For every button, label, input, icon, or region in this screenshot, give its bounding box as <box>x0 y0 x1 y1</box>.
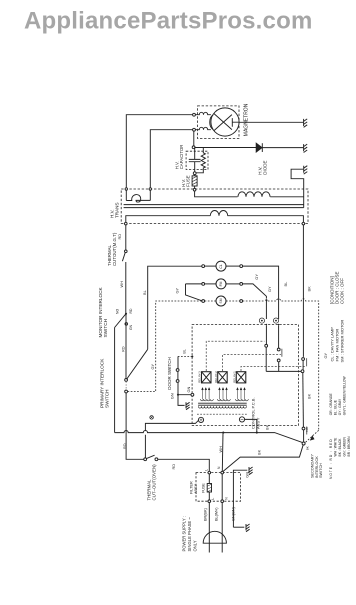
svg-text:BL(WH): BL(WH) <box>214 507 218 521</box>
svg-text:FUSE: FUSE <box>201 483 205 493</box>
svg-text:RELAY-1: RELAY-1 <box>232 371 236 383</box>
relay contact B lower <box>277 359 280 362</box>
wire primary lead right <box>228 216 304 223</box>
node stirrer junction pin <box>202 300 205 303</box>
relay contact A <box>265 344 268 347</box>
svg-text:L: L <box>204 469 208 471</box>
LVT lower boundary dashed <box>197 413 248 415</box>
svg-text:BL : BLUE: BL : BLUE <box>334 399 338 415</box>
svg-text:ONLY: ONLY <box>192 540 197 551</box>
ground chassis G5 <box>249 467 253 475</box>
wire fan out <box>226 283 240 285</box>
node door switch feed on box edge <box>191 355 193 357</box>
wire lamp out <box>226 265 240 267</box>
wire GN earth to plug side chassis <box>233 526 244 528</box>
svg-text:GN: GN <box>169 393 174 399</box>
monitor switch contact <box>125 323 128 326</box>
wire door switch drop <box>177 356 179 369</box>
svg-text:GN : GREEN: GN : GREEN <box>342 436 346 456</box>
capacitor C1 dashed enclosure <box>186 151 208 169</box>
svg-text:RD: RD <box>129 308 133 313</box>
fuse F2 H.V. FUSE <box>192 176 197 186</box>
ground chassis G4 <box>186 402 190 409</box>
wire stirrer feed <box>205 300 216 302</box>
node fan return joins rail <box>265 299 267 301</box>
node fan left pin <box>202 283 205 286</box>
motor SM stirrer motor <box>216 296 226 306</box>
thermal cutout (M.G.T) switch S1 <box>125 250 128 253</box>
filter assy dashed enclosure <box>196 473 241 502</box>
svg-text:GN(GN): GN(GN) <box>231 506 235 521</box>
svg-text:AppliancePartsPros.com: AppliancePartsPros.com <box>24 8 313 35</box>
secondary interlock switch S5 contact top <box>302 427 305 430</box>
wire fan feed drop from stirrer row <box>186 284 202 301</box>
svg-text:POWER SUPPLY :: POWER SUPPLY : <box>181 516 186 551</box>
node monitor branch junction <box>125 313 127 315</box>
wire magnetron filament lead 1 <box>126 115 192 201</box>
magnetron terminal pin 1 <box>193 113 196 116</box>
node filter terminal L <box>208 471 211 474</box>
wire door switch to GN terminal <box>178 383 191 395</box>
svg-text:COOK : OFF: COOK : OFF <box>340 278 345 304</box>
wire LVT left lead to thermal node <box>145 420 198 458</box>
node stirrer right pin <box>240 300 243 303</box>
magnetron anode bar <box>232 118 239 127</box>
svg-text:DOOR SWITCH: DOOR SWITCH <box>167 357 172 390</box>
svg-text:ASS'Y: ASS'Y <box>255 417 260 429</box>
relay link dashed RY3 <box>241 366 306 371</box>
wire GY stirrer return rail with hops <box>243 299 319 431</box>
svg-text:SM : STIRRER MOTOR: SM : STIRRER MOTOR <box>339 320 344 363</box>
wire GY fan return <box>243 284 267 299</box>
node filter exit L <box>208 500 211 503</box>
relay link dashed RY2 <box>222 355 281 371</box>
node primary terminal left <box>125 222 128 225</box>
svg-text:FUSE: FUSE <box>186 175 191 187</box>
wire BK transformer primary down <box>302 225 304 357</box>
svg-text:BL: BL <box>283 281 288 287</box>
transformer T1 dashed enclosure <box>121 189 308 224</box>
svg-text:GN: GN <box>186 386 191 392</box>
control PCB dashed enclosure <box>192 325 298 426</box>
ground chassis G3 <box>304 166 308 174</box>
oven door switch contact lower <box>176 380 179 383</box>
svg-text:DIODE: DIODE <box>262 161 267 175</box>
svg-text:RD: RD <box>117 234 122 240</box>
svg-text:GY : GRAY: GY : GRAY <box>338 398 342 415</box>
relay contact B actuator bar <box>281 349 283 357</box>
secondary interlock actuator flag <box>306 427 308 435</box>
node WH drop junction <box>222 432 224 434</box>
monitor interlock switch S2 blade <box>115 314 126 328</box>
relay contact C <box>302 358 305 361</box>
relay contact C actuator bar <box>306 358 308 366</box>
svg-text:ASSY: ASSY <box>194 483 198 494</box>
svg-text:SWITCH: SWITCH <box>103 319 108 338</box>
wire fan return continues down <box>265 300 267 319</box>
node capacitor/fuse junction <box>193 172 196 175</box>
svg-text:RD: RD <box>171 464 176 470</box>
terminal mark lamp return <box>273 318 278 323</box>
relay RY3 coil box <box>236 372 246 383</box>
node fan right pin <box>240 283 243 286</box>
magnetron terminal pin 2 <box>193 128 196 131</box>
relay RY2 coil box <box>218 372 228 383</box>
transformer T2 LVT rails <box>198 403 247 405</box>
svg-text:BR(BK): BR(BK) <box>203 507 207 521</box>
wire WH drop to filter N <box>221 433 224 472</box>
svg-text:BL: BL <box>142 289 147 295</box>
node lamp left pin <box>202 265 205 268</box>
svg-text:WH : WHITE: WH : WHITE <box>334 437 338 457</box>
relay contact B upper <box>277 348 280 351</box>
wire main line to primary interlock <box>125 314 127 379</box>
primary interlock blade <box>127 349 148 379</box>
wire lamp return inside box <box>278 325 280 348</box>
svg-text:BR : BROWN: BR : BROWN <box>347 436 351 457</box>
node lamp right pin <box>240 265 243 268</box>
svg-text:BK: BK <box>305 446 309 450</box>
transformer secondary winding <box>238 192 270 197</box>
wire LVT right lead to neutral <box>245 419 257 432</box>
secondary interlock blade <box>303 430 305 442</box>
wire fan return inside box <box>265 325 267 344</box>
node filament lead 1 on box edge <box>125 188 127 190</box>
wire primary lead left <box>126 216 211 223</box>
svg-text:FILTER: FILTER <box>189 481 193 494</box>
svg-text:WH: WH <box>218 446 223 453</box>
oven door switch blade <box>177 372 179 380</box>
terminal mark fan return <box>259 318 264 323</box>
node filament lead 2 on box edge <box>149 188 151 190</box>
magnetron U1 tube circle <box>211 108 239 136</box>
diode D1 H.V. DIODE <box>256 143 262 152</box>
svg-text:BL: BL <box>181 348 186 354</box>
svg-text:GY: GY <box>323 352 328 358</box>
relay coil winding bumps <box>201 399 249 401</box>
svg-text:GY: GY <box>150 363 155 369</box>
svg-text:CL: CL <box>219 264 223 268</box>
svg-text:FM: FM <box>219 281 223 286</box>
node neutral bus <box>302 442 305 445</box>
node LVT neutral tap <box>256 432 258 434</box>
svg-text:BK: BK <box>306 393 311 399</box>
wire stirrer out <box>226 300 240 302</box>
wire BL door switch feed <box>178 355 192 357</box>
node secondary terminal on transformer box <box>193 188 196 191</box>
wire GY rail joins neutral bus <box>305 430 319 442</box>
svg-text:SINGLE PHASE ~: SINGLE PHASE ~ <box>187 517 192 552</box>
relay RY1 coil box <box>202 372 212 383</box>
wire GN to chassis <box>178 395 185 406</box>
wire BL lamp return <box>243 266 279 319</box>
svg-text:GY: GY <box>267 286 272 292</box>
svg-text:BK : BLACK: BK : BLACK <box>338 438 342 457</box>
LVT terminal N <box>239 417 244 422</box>
svg-text:GN: GN <box>129 324 133 330</box>
ground chassis G1 <box>304 119 308 127</box>
lamp CL cavity lamp <box>216 261 226 271</box>
svg-text:SWITCH: SWITCH <box>319 463 323 478</box>
wire BL(WH) line cord <box>221 503 223 553</box>
wire BR(BK) line cord <box>208 503 210 553</box>
svg-text:CAPACITOR: CAPACITOR <box>179 145 184 170</box>
svg-text:SM: SM <box>219 298 223 303</box>
svg-text:CUT–OUT(OVEN): CUT–OUT(OVEN) <box>152 464 157 501</box>
resistor R1 bleeder <box>196 148 205 173</box>
wire RD interlock to thermal cutout oven <box>126 393 144 459</box>
oven door switch S4 contact upper <box>176 369 179 372</box>
wire marker on GY diagonal <box>310 435 315 440</box>
node contact bus junction <box>301 370 304 373</box>
fuse F1 <box>208 474 210 484</box>
magnetron filament arc <box>210 115 213 130</box>
wire BL to lamp row <box>148 266 202 349</box>
svg-text:RD: RD <box>120 346 125 352</box>
svg-text:TRANS: TRANS <box>114 202 119 218</box>
magnetron internal electrodes <box>214 114 232 131</box>
wire lamp feed <box>205 265 216 267</box>
wire GY from interlock to stirrer row <box>128 301 202 392</box>
node filter exit N <box>221 500 224 503</box>
primary interlock switch S3 contact upper <box>125 379 128 382</box>
svg-text:NO: NO <box>115 309 119 314</box>
svg-text:GN: GN <box>245 472 250 478</box>
relay link dashed RY1 <box>206 341 264 371</box>
node GN terminal on box edge <box>191 393 194 396</box>
wire RD transformer to thermal cutout <box>125 225 127 250</box>
wire HV node to diode anode <box>195 147 256 149</box>
magnetron RF choke 2 <box>195 127 211 129</box>
wire neutral left branch <box>114 328 116 433</box>
svg-text:NOTE : RD : RED: NOTE : RD : RED <box>329 438 333 479</box>
capacitor C1 H.V. CAPACITOR <box>189 147 201 172</box>
wire BK to secondary interlock <box>302 373 305 428</box>
wire fan feed <box>205 283 216 285</box>
wire L through filter <box>208 492 210 500</box>
ground chassis G6 <box>246 524 250 532</box>
svg-text:L: L <box>211 498 215 500</box>
svg-text:BK: BK <box>256 449 261 455</box>
wire diode cathode to chassis <box>262 147 303 149</box>
svg-text:RD: RD <box>122 443 127 449</box>
svg-text:GN/YL : GREEN/YELLOW: GN/YL : GREEN/YELLOW <box>342 376 346 416</box>
svg-text:MAGNETRON: MAGNETRON <box>243 103 249 136</box>
wire N through filter <box>221 474 223 500</box>
transformer core lines <box>124 205 304 208</box>
svg-text:RELAY-3: RELAY-3 <box>198 371 202 383</box>
wire magnetron anode to chassis <box>239 121 303 123</box>
wire magnetron filament lead 2 <box>150 130 192 201</box>
svg-text:GY: GY <box>254 274 259 280</box>
magnetron dashed enclosure <box>198 106 240 139</box>
relay driver arrows <box>202 388 246 400</box>
svg-text:NO: NO <box>305 426 309 431</box>
transformer filament winding <box>126 195 150 203</box>
svg-text:RELAY-2: RELAY-2 <box>214 371 218 383</box>
LVT terminal L <box>198 417 203 422</box>
wire contact bus <box>266 370 301 372</box>
primary interlock contact lower <box>125 381 127 390</box>
wire secondary return to chassis <box>270 169 303 207</box>
plug P1 <box>203 531 226 543</box>
svg-text:OR : ORANGE: OR : ORANGE <box>329 393 333 416</box>
svg-text:GY: GY <box>175 287 180 293</box>
wire BK neutral bus to filter N <box>223 445 303 472</box>
wire RD to filter L <box>158 459 210 471</box>
ground chassis G2 <box>304 144 308 152</box>
svg-text:SWITCH: SWITCH <box>105 390 110 409</box>
node lamp return crosses box edge <box>278 324 280 326</box>
wire secondary lead <box>195 191 238 197</box>
wire fuse to transformer secondary terminal <box>194 186 196 188</box>
svg-text:WH: WH <box>119 281 124 288</box>
svg-text:BK: BK <box>306 286 311 292</box>
transformer T2 LVT winding <box>199 406 247 408</box>
connector mark on lead <box>150 416 154 420</box>
node door switch ground branch <box>177 394 179 396</box>
node primary terminal right <box>302 222 305 225</box>
transformer primary winding <box>210 210 227 215</box>
wire WH neutral horizontal with hops <box>115 431 304 443</box>
node HV junction <box>192 146 195 149</box>
svg-text:BK: BK <box>264 424 269 430</box>
wire GN earth to chassis <box>233 470 247 527</box>
motor FM fan motor <box>216 279 226 289</box>
magnetron RF choke 1 <box>195 112 211 114</box>
node fan return crosses box edge <box>266 324 268 326</box>
thermal cutout (OVEN) switch S6 <box>144 458 147 461</box>
wire filament to HV node <box>193 131 195 146</box>
wire node to HV fuse <box>194 175 196 176</box>
node filter terminal N <box>221 471 224 474</box>
